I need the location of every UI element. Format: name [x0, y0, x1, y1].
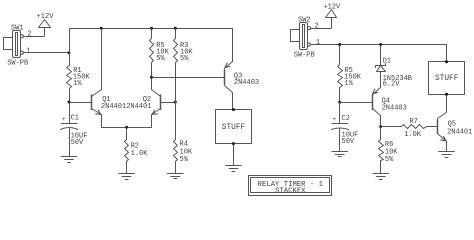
svg-text:C2: C2: [342, 115, 350, 123]
svg-text:SW-PB: SW-PB: [7, 60, 28, 68]
svg-text:STUFF: STUFF: [435, 75, 459, 83]
svg-text:5%: 5%: [180, 156, 189, 164]
svg-text:50V: 50V: [342, 138, 355, 146]
svg-text:2N4403: 2N4403: [234, 79, 259, 87]
svg-text:SW2: SW2: [298, 16, 311, 24]
svg-text:5%: 5%: [385, 156, 394, 164]
svg-text:1: 1: [26, 47, 30, 55]
svg-text:2: 2: [27, 31, 31, 39]
svg-text:1: 1: [316, 39, 320, 47]
svg-text:D1: D1: [383, 57, 391, 65]
svg-text:+12V: +12V: [323, 3, 341, 11]
svg-text:1.0K: 1.0K: [404, 131, 422, 139]
svg-text:2N44012N4401: 2N44012N4401: [101, 103, 151, 111]
svg-text:2N4401: 2N4401: [447, 129, 472, 137]
svg-text:Q5: Q5: [448, 121, 456, 129]
svg-text:2: 2: [315, 22, 319, 30]
svg-text:1%: 1%: [344, 80, 353, 88]
svg-text:R7: R7: [410, 118, 418, 126]
svg-text:C1: C1: [71, 115, 79, 123]
svg-text:50V: 50V: [71, 139, 84, 147]
svg-text:6.2V: 6.2V: [383, 80, 401, 88]
svg-text:1.0K: 1.0K: [131, 150, 149, 158]
svg-text:+: +: [333, 116, 337, 123]
svg-text:2N4403: 2N4403: [382, 104, 407, 112]
svg-text:STUFF: STUFF: [222, 124, 246, 132]
svg-text:5%: 5%: [156, 55, 165, 63]
svg-text:+: +: [62, 116, 66, 123]
svg-text:SW-PB: SW-PB: [294, 51, 315, 59]
svg-text:1%: 1%: [73, 80, 82, 88]
svg-text:+12V: +12V: [37, 13, 55, 21]
svg-text:5%: 5%: [180, 55, 189, 63]
svg-text:Q2: Q2: [143, 96, 151, 104]
svg-text:STACKEX: STACKEX: [275, 188, 306, 196]
svg-text:SW1: SW1: [11, 25, 24, 33]
